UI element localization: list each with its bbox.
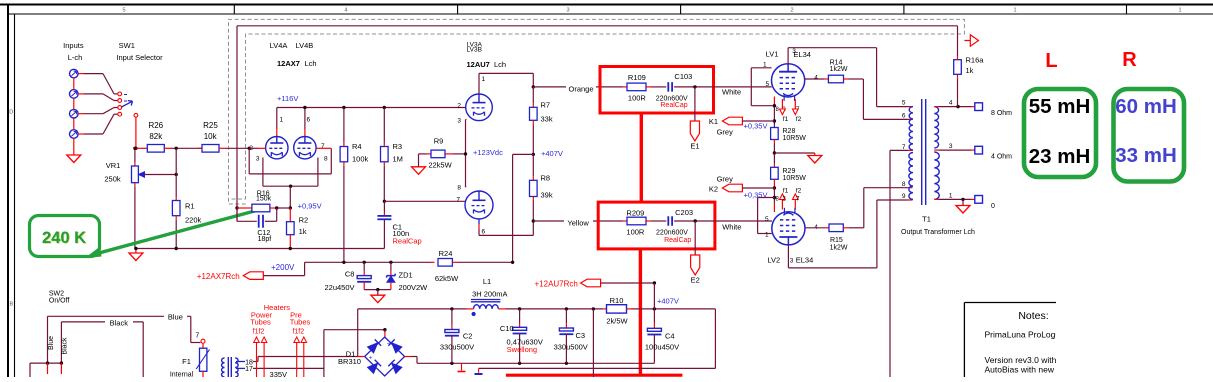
label R209 bbox=[626, 209, 644, 218]
svg-text:5: 5 bbox=[765, 216, 769, 223]
resistor R26 bbox=[136, 145, 171, 153]
svg-text:~: ~ bbox=[387, 342, 391, 348]
red annotation bottom horizontal bbox=[506, 374, 683, 377]
svg-text:3: 3 bbox=[566, 8, 569, 14]
resistor R1 bbox=[172, 148, 180, 248]
wire cathode ground link bbox=[774, 152, 814, 154]
wire heater drop bbox=[592, 309, 594, 377]
label 10R5W R29 bbox=[783, 175, 807, 182]
svg-text:EL34: EL34 bbox=[796, 256, 814, 265]
junction C8 rail bbox=[363, 261, 366, 264]
bridge rectifier D1 bbox=[365, 337, 405, 376]
sheet border outer top line bbox=[0, 4, 1213, 6]
wire R209-C203 bbox=[651, 220, 666, 222]
svg-text:1: 1 bbox=[482, 76, 486, 83]
zener diode ZD1 bbox=[387, 262, 396, 289]
label EL34 LV2 bbox=[796, 256, 814, 265]
svg-text:+116V: +116V bbox=[277, 94, 298, 103]
junction +407V feed bbox=[511, 261, 514, 264]
svg-text:0: 0 bbox=[991, 203, 995, 210]
svg-text:C4: C4 bbox=[665, 332, 675, 341]
label 100k bbox=[352, 155, 369, 164]
label +200V bbox=[271, 263, 295, 272]
wire C8 ZD1 ground bus bbox=[364, 289, 391, 291]
wire +12AX7Rch bbox=[263, 262, 304, 275]
tube LV2 EL34 bbox=[772, 208, 805, 245]
junction orange tap bbox=[532, 85, 535, 88]
svg-text:5: 5 bbox=[766, 81, 770, 88]
label RealCap C103 bbox=[660, 102, 687, 109]
junction R26-R25 tap bbox=[175, 147, 178, 150]
sheet border outer left line bbox=[7, 5, 9, 378]
wire E1 bbox=[694, 87, 696, 121]
label R24 bbox=[439, 249, 453, 258]
svg-text:R28: R28 bbox=[783, 128, 796, 135]
resistor R15 bbox=[805, 224, 864, 232]
svg-text:4: 4 bbox=[344, 8, 347, 14]
label R109 bbox=[628, 73, 646, 82]
svg-text:22u450V: 22u450V bbox=[324, 283, 354, 292]
wire C4 branch bbox=[653, 283, 655, 328]
ground C8/ZD1 bbox=[371, 290, 385, 303]
terminal 4 Ohm bbox=[975, 146, 983, 154]
svg-text:+0,95V: +0,95V bbox=[298, 202, 322, 211]
svg-text:3: 3 bbox=[457, 118, 461, 125]
pin 1 T1 bbox=[949, 192, 953, 199]
net flag +12AU7Rch bbox=[581, 279, 601, 287]
resistor R24 bbox=[431, 259, 513, 267]
svg-text:6: 6 bbox=[902, 113, 906, 120]
sheet border inner left line bbox=[14, 14, 16, 377]
label pin 18 bbox=[245, 359, 253, 366]
label +407V lower bbox=[657, 297, 679, 306]
label 12AX7 bbox=[277, 59, 300, 68]
junction heater drop bbox=[592, 307, 595, 310]
junction R1 ground bbox=[175, 247, 178, 250]
label Input Selector bbox=[116, 53, 163, 62]
selector wiper arrow SW1 bbox=[122, 95, 133, 108]
wire bridge AC top bbox=[324, 330, 385, 377]
svg-text:+407V: +407V bbox=[541, 149, 563, 158]
label White 2 bbox=[722, 222, 741, 231]
label R8 bbox=[541, 174, 551, 183]
selector common terminal bbox=[134, 113, 138, 117]
resistor R9 bbox=[419, 150, 466, 158]
label Notes: bbox=[1018, 310, 1048, 322]
label 250k bbox=[104, 175, 121, 184]
wire yellow signal bbox=[533, 220, 622, 222]
label Black wire bbox=[105, 318, 133, 328]
wire R14 to T1 pin6 bbox=[863, 79, 912, 119]
svg-text:+12AU7Rch: +12AU7Rch bbox=[535, 279, 578, 288]
svg-text:f1f2: f1f2 bbox=[253, 328, 265, 335]
svg-text:f2: f2 bbox=[796, 187, 802, 194]
label 330u500V C3 bbox=[554, 342, 588, 351]
svg-text:ZD1: ZD1 bbox=[399, 271, 413, 280]
junction R28-R29 bbox=[773, 151, 776, 154]
svg-text:10R5W: 10R5W bbox=[783, 135, 807, 142]
svg-text:220n600V: 220n600V bbox=[656, 229, 688, 236]
svg-text:PrimaLuna ProLogue: PrimaLuna ProLogue bbox=[985, 330, 1066, 340]
label K1 bbox=[709, 117, 718, 126]
heater pins f1 f2 LV1 bbox=[780, 99, 799, 115]
svg-text:8: 8 bbox=[457, 185, 461, 192]
pin 6 LV4B bbox=[307, 117, 311, 124]
svg-text:On/Off: On/Off bbox=[49, 297, 70, 304]
svg-text:100R: 100R bbox=[626, 227, 645, 236]
label Version bbox=[985, 355, 1057, 365]
border zone tick marks bbox=[234, 5, 1126, 15]
svg-text:23 mH: 23 mH bbox=[1029, 145, 1091, 168]
wire C12 left link bbox=[237, 208, 257, 221]
label R16a bbox=[966, 56, 985, 65]
svg-text:1k2W: 1k2W bbox=[830, 66, 848, 73]
tube LV3A 12AU7 bbox=[466, 94, 493, 121]
junction E1 tap bbox=[693, 85, 696, 88]
red highlight box R109/C103 bbox=[600, 67, 714, 114]
wire R25 to grid bbox=[225, 147, 249, 149]
wire +407V branch bbox=[513, 154, 534, 262]
junction selector-R26 bbox=[134, 147, 137, 150]
label Pre bbox=[290, 310, 302, 319]
wire E2 bbox=[694, 221, 696, 255]
wire sw2 stubs bbox=[48, 363, 62, 374]
svg-text:8: 8 bbox=[324, 156, 328, 163]
wire return bus bbox=[479, 367, 716, 369]
label R16 bbox=[257, 191, 270, 198]
svg-text:Output Transformer Lch: Output Transformer Lch bbox=[901, 229, 975, 236]
notes box bbox=[964, 303, 1056, 378]
svg-text:Swellong: Swellong bbox=[507, 345, 537, 354]
capacitor C103 bbox=[668, 82, 672, 92]
resistor R29 bbox=[771, 153, 779, 188]
wire C1 bottom bbox=[383, 219, 385, 248]
wire HV right vertical bbox=[358, 309, 365, 357]
wire +12AU7Rch bbox=[601, 282, 655, 284]
junction R9 tap bbox=[464, 152, 467, 155]
junction C2 top bbox=[450, 307, 453, 310]
resistor R14 bbox=[805, 75, 864, 83]
T1 primary winding upper bbox=[909, 107, 913, 150]
choke L1 dot bbox=[472, 312, 476, 316]
svg-text:10R5W: 10R5W bbox=[783, 175, 807, 182]
label LV4B bbox=[296, 41, 314, 50]
svg-text:Notes:: Notes: bbox=[1018, 310, 1048, 322]
label Blue vertical bbox=[48, 336, 55, 350]
label K2 bbox=[709, 184, 718, 193]
pin 17 stub bbox=[236, 367, 245, 369]
dashed channel box outer bbox=[229, 19, 965, 204]
svg-text:62k5W: 62k5W bbox=[435, 274, 459, 283]
svg-text:18pf: 18pf bbox=[258, 236, 272, 243]
wire pin3 to pin8 bbox=[466, 120, 467, 188]
pin 1 LV1 bbox=[763, 62, 767, 69]
label L channel bbox=[1045, 50, 1057, 72]
junction cathode bus bbox=[289, 185, 292, 188]
svg-text:6: 6 bbox=[482, 229, 486, 236]
svg-text:C10: C10 bbox=[500, 324, 514, 333]
junction K2 tap bbox=[773, 186, 776, 189]
svg-text:+12AX7Rch: +12AX7Rch bbox=[197, 272, 240, 281]
tube LV3B 12AU7 bbox=[465, 191, 493, 219]
resistor R2 bbox=[287, 208, 295, 249]
svg-text:EL34: EL34 bbox=[793, 50, 811, 59]
label 0,47u630V bbox=[507, 337, 543, 346]
label Tubes pre bbox=[290, 318, 311, 327]
junction C4 top bbox=[653, 307, 656, 310]
wire cathode legs bbox=[263, 158, 318, 187]
label +0,35V K1 bbox=[744, 121, 768, 130]
wire feedback right vertical bbox=[957, 26, 959, 56]
wire feedback left vertical bbox=[236, 26, 238, 222]
wire pin6 LV3B bbox=[479, 219, 533, 235]
svg-text:+123Vdc: +123Vdc bbox=[473, 148, 503, 157]
label 55 mH bbox=[1029, 95, 1091, 118]
label LV3A bbox=[467, 42, 483, 49]
resistor R28 bbox=[771, 128, 779, 154]
label E2 bbox=[691, 276, 700, 285]
svg-text:L1: L1 bbox=[483, 277, 491, 286]
svg-text:Lch: Lch bbox=[494, 60, 506, 69]
label +407V upper bbox=[541, 149, 563, 158]
wire +200V rail bbox=[305, 261, 431, 263]
junction R16 right bbox=[275, 206, 278, 209]
fuse F1 bbox=[196, 343, 209, 377]
svg-text:1: 1 bbox=[765, 232, 769, 239]
junction C10 gnd bbox=[518, 362, 521, 365]
label R7 bbox=[541, 101, 551, 110]
pin 6 T1 bbox=[902, 113, 906, 120]
svg-text:100u450V: 100u450V bbox=[645, 342, 679, 351]
wire C12 right link bbox=[265, 208, 277, 221]
label 220n600V bbox=[656, 96, 688, 103]
label 23 mH bbox=[1029, 145, 1091, 168]
svg-text:5: 5 bbox=[122, 8, 125, 14]
capacitor C2 bbox=[445, 309, 459, 363]
pin 7 F1 bbox=[195, 333, 199, 340]
svg-text:8 Ohm: 8 Ohm bbox=[991, 110, 1012, 117]
wire jack column bbox=[73, 78, 75, 155]
power transformer primary coil bbox=[222, 358, 225, 377]
ground input jacks bbox=[67, 155, 81, 163]
svg-text:3: 3 bbox=[949, 143, 953, 150]
pin labels LV1 bottom bbox=[775, 107, 800, 113]
svg-text:K1: K1 bbox=[709, 117, 718, 126]
svg-text:R24: R24 bbox=[439, 249, 453, 258]
resistor R25 bbox=[198, 145, 225, 153]
label R29 bbox=[783, 168, 796, 175]
dashed channel box inner bbox=[229, 34, 962, 199]
svg-text:Grey: Grey bbox=[717, 175, 734, 184]
wire LV2 cathode bbox=[773, 188, 775, 212]
resistor R8 bbox=[530, 154, 538, 221]
svg-text:1: 1 bbox=[1013, 8, 1016, 14]
label Black vertical bbox=[62, 337, 69, 355]
label 39k bbox=[541, 191, 553, 200]
resistor R16 bbox=[237, 204, 290, 212]
svg-text:200V2W: 200V2W bbox=[399, 283, 429, 292]
junction grid node bbox=[248, 147, 251, 150]
svg-text:R209: R209 bbox=[626, 209, 644, 218]
label LV2 bbox=[767, 255, 780, 264]
capacitor C3 bbox=[559, 309, 573, 363]
svg-text:Blue: Blue bbox=[168, 313, 183, 322]
resistor R209 bbox=[623, 217, 652, 225]
label R channel bbox=[1122, 49, 1137, 71]
heater pins f1f2 arrows bbox=[254, 337, 307, 377]
svg-text:R29: R29 bbox=[783, 168, 796, 175]
wire feedback top horizontal bbox=[237, 25, 958, 27]
pin 5 LV1 bbox=[766, 81, 770, 88]
label f1 LV1 bbox=[783, 116, 789, 123]
label C12 bbox=[257, 230, 270, 237]
net flag K2 bbox=[722, 184, 742, 192]
wire C203 to white bbox=[674, 220, 772, 222]
pin 5 LV2 bbox=[765, 216, 769, 223]
svg-text:7: 7 bbox=[321, 143, 325, 150]
svg-text:5: 5 bbox=[902, 100, 906, 107]
pin 3 LV1 bbox=[792, 48, 796, 55]
capacitor C4 bbox=[647, 328, 661, 363]
junction C3 gnd bbox=[565, 362, 568, 365]
pin 4 LV1 bbox=[814, 75, 818, 82]
power transformer core bbox=[228, 357, 231, 377]
wire grid U-link bbox=[249, 148, 331, 174]
svg-text:LV3B: LV3B bbox=[467, 47, 482, 54]
wire sw2 bottom bbox=[30, 363, 61, 377]
label LV1 bbox=[766, 50, 779, 59]
minus stub bbox=[458, 363, 466, 371]
label R28 bbox=[783, 128, 796, 135]
wire K1 flag bbox=[742, 120, 774, 122]
label +0,95V bbox=[298, 202, 322, 211]
junction C3 top bbox=[565, 307, 568, 310]
svg-text:LV2: LV2 bbox=[767, 255, 780, 264]
junction VR1 wiper tap bbox=[175, 173, 178, 176]
svg-text:4: 4 bbox=[949, 99, 953, 106]
wire C103 to white bbox=[674, 86, 772, 88]
svg-text:R7: R7 bbox=[541, 101, 551, 110]
label 200V2W bbox=[399, 283, 429, 292]
label R25 bbox=[203, 121, 218, 130]
net flag K1 bbox=[722, 117, 742, 125]
svg-text:Inputs: Inputs bbox=[63, 41, 84, 50]
pin 2 LV4A bbox=[249, 145, 253, 152]
junction yellow tap bbox=[532, 219, 535, 222]
label R15 bbox=[830, 237, 843, 244]
wire selector common down bbox=[135, 117, 137, 148]
svg-text:Black: Black bbox=[62, 337, 69, 355]
red annotation vertical long bbox=[639, 249, 642, 377]
label LV4A bbox=[270, 41, 288, 50]
label R9 bbox=[434, 137, 444, 146]
pin 3 LV4A bbox=[256, 156, 260, 163]
junction plate B bbox=[303, 106, 306, 109]
capacitor C203 bbox=[668, 216, 672, 226]
svg-text:R8: R8 bbox=[541, 174, 551, 183]
label 22u450V bbox=[324, 283, 354, 292]
label Blue wire bbox=[164, 312, 187, 322]
label +12AU7Rch bbox=[535, 279, 578, 288]
svg-text:6: 6 bbox=[307, 117, 311, 124]
label D1 bbox=[346, 350, 356, 359]
svg-text:250k: 250k bbox=[104, 175, 121, 184]
svg-text:82k: 82k bbox=[149, 132, 163, 141]
svg-text:17: 17 bbox=[245, 366, 253, 373]
wire cathode bus 12AX7 bbox=[263, 185, 318, 187]
label C3 bbox=[576, 331, 586, 340]
svg-text:12AX7: 12AX7 bbox=[277, 59, 300, 68]
svg-text:7: 7 bbox=[456, 197, 460, 204]
svg-text:Tubes: Tubes bbox=[250, 318, 271, 327]
label Orange bbox=[566, 84, 596, 94]
wire B+ mid bbox=[498, 308, 602, 310]
svg-text:335V: 335V bbox=[270, 370, 288, 377]
svg-text:SW1: SW1 bbox=[119, 41, 135, 50]
label 100u450V bbox=[645, 342, 679, 351]
resistor R3 bbox=[381, 108, 389, 202]
wire B+ right down bbox=[714, 309, 716, 369]
junction sw2 b bbox=[60, 361, 63, 364]
svg-text:C103: C103 bbox=[674, 72, 692, 81]
svg-text:Lch: Lch bbox=[305, 59, 317, 68]
wire C1 top bbox=[383, 201, 385, 216]
label Power bbox=[251, 310, 273, 319]
resistor R7 bbox=[530, 87, 538, 154]
svg-text:Tubes: Tubes bbox=[290, 318, 311, 327]
tube LV4A 12AX7 bbox=[266, 137, 288, 159]
svg-text:C3: C3 bbox=[576, 331, 586, 340]
wire pin1 LV1 link bbox=[751, 68, 774, 106]
capacitor C1 bbox=[377, 216, 391, 219]
wire T1 pin4 lead bbox=[934, 106, 975, 108]
wire bridge stub bbox=[384, 330, 386, 337]
label R3 bbox=[393, 142, 403, 151]
tube LV4B 12AX7 bbox=[294, 137, 316, 159]
wire K2 flag bbox=[742, 187, 774, 189]
svg-text:Black: Black bbox=[110, 319, 129, 328]
wire sw2 blue vertical bbox=[47, 316, 49, 363]
pin 8 LV4B bbox=[324, 156, 328, 163]
svg-text:R25: R25 bbox=[203, 121, 218, 130]
junction feedback 8ohm bbox=[956, 105, 959, 108]
off-page connector arrow right bbox=[964, 35, 978, 46]
label +116V bbox=[277, 94, 298, 103]
label 82k bbox=[149, 132, 163, 141]
label 220k bbox=[185, 216, 202, 225]
junction E2 tap bbox=[694, 219, 697, 222]
label Grey K1 bbox=[717, 128, 734, 137]
junction pin1 cathode LV1 bbox=[773, 104, 776, 107]
wire B+ left bbox=[358, 308, 474, 310]
border zone letter B bbox=[9, 302, 13, 308]
label Lch 12AX7 bbox=[305, 59, 317, 68]
choke L1 winding bbox=[474, 305, 499, 309]
label White 1 bbox=[722, 88, 741, 97]
label 62k5W bbox=[435, 274, 459, 283]
label R2 bbox=[299, 215, 309, 224]
ground R9 bbox=[412, 167, 426, 175]
heater pins f1 f2 LV2 bbox=[780, 194, 799, 210]
pin 4 LV2 bbox=[814, 224, 818, 231]
svg-text:150k: 150k bbox=[256, 196, 272, 203]
label On/Off bbox=[49, 297, 70, 304]
svg-text:K2: K2 bbox=[709, 184, 718, 193]
label 0 bbox=[991, 203, 995, 210]
svg-text:VR1: VR1 bbox=[106, 161, 121, 170]
label L1 bbox=[483, 277, 491, 286]
svg-text:R9: R9 bbox=[434, 137, 444, 146]
